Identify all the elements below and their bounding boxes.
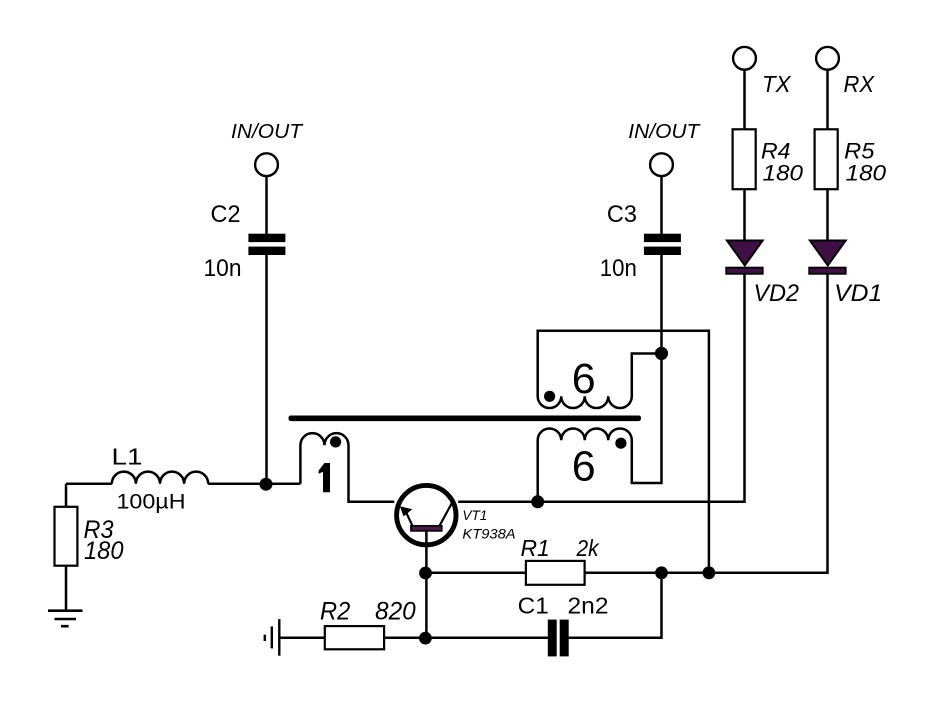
svg-text:R1: R1 <box>521 535 550 561</box>
svg-text:2k: 2k <box>576 535 600 561</box>
junction node C (bottom winding / TX line) <box>531 495 544 508</box>
wire ground2 to R2 <box>281 637 325 640</box>
polarity dot primary winding <box>330 436 341 447</box>
svg-text:VT1: VT1 <box>462 508 487 523</box>
ground symbol under R3 <box>48 611 83 627</box>
svg-text:C3: C3 <box>607 201 637 228</box>
svg-text:6: 6 <box>572 443 596 491</box>
transformer core <box>289 416 642 422</box>
junction emitter / R1 left <box>419 567 432 580</box>
wire input node down to R3 <box>65 484 68 507</box>
wire terminal1 to C2 <box>265 176 268 235</box>
svg-text:180: 180 <box>84 537 124 565</box>
svg-text:TX: TX <box>762 71 792 97</box>
diode VD1 <box>809 241 846 274</box>
svg-text:180: 180 <box>846 161 887 186</box>
terminal RX <box>816 47 839 70</box>
svg-text:180: 180 <box>763 161 804 186</box>
capacitor C1 <box>548 620 569 657</box>
svg-text:C1: C1 <box>518 593 549 619</box>
svg-text:6: 6 <box>572 355 596 403</box>
junction node A (C3 / windings) <box>655 347 668 360</box>
wire RX terminal to R5 <box>826 70 829 129</box>
wire input line left to L1 and across to primary <box>66 482 112 485</box>
polarity dot top winding <box>544 391 555 402</box>
svg-text:10n: 10n <box>204 255 242 282</box>
svg-text:10n: 10n <box>600 255 637 282</box>
resistor R5 <box>815 129 838 189</box>
transformer primary winding 1 <box>300 433 394 502</box>
svg-text:C2: C2 <box>211 201 241 228</box>
wire R2 to emitter node <box>384 637 425 640</box>
capacitor C2 <box>248 234 285 255</box>
wire VD1 down to R1 output line <box>585 273 828 573</box>
wire C1 right up to R1 line <box>569 573 662 638</box>
wire C3 to node A <box>660 254 663 354</box>
wire L1 to primary winding <box>208 482 300 485</box>
junction node B (L1 / C2 / primary) <box>260 478 273 491</box>
svg-text:IN/OUT: IN/OUT <box>628 121 701 143</box>
transformer secondary top winding 6 <box>538 331 709 573</box>
svg-text:VD2: VD2 <box>754 280 800 307</box>
wire transistor emitter down <box>425 531 428 638</box>
capacitor C3 <box>644 234 681 255</box>
wire terminal2 to C3 <box>660 176 663 235</box>
inductor L1 <box>112 472 208 484</box>
wire TX terminal to R4 <box>743 70 746 129</box>
wire R3 to ground <box>65 566 68 611</box>
terminal TX <box>733 47 756 70</box>
ground symbol left of R2 <box>265 619 280 656</box>
wire C2 to junction node B <box>265 254 268 484</box>
svg-text:KT938A: KT938A <box>462 527 515 542</box>
wire VD2 down and left to transistor right <box>458 273 744 502</box>
wire emitter node to C1 <box>426 637 549 640</box>
svg-text:VD1: VD1 <box>834 280 882 307</box>
wire R5 to VD1 <box>826 189 829 241</box>
diode VD2 <box>726 241 763 274</box>
junction rectangle edge / R1 line <box>703 566 716 579</box>
svg-text:RX: RX <box>844 71 876 97</box>
wire R4 to VD2 <box>743 189 746 241</box>
junction emitter / R2 / C1 <box>419 632 432 645</box>
transformer secondary bottom winding 6 <box>538 354 662 502</box>
svg-text:820: 820 <box>375 597 416 625</box>
resistor R1 <box>526 561 585 585</box>
svg-text:R2: R2 <box>320 597 350 625</box>
wire emitter node to R1 left <box>426 572 526 575</box>
transistor VT1 <box>397 485 456 544</box>
svg-text:2n2: 2n2 <box>568 593 609 619</box>
resistor R4 <box>733 129 756 189</box>
junction R1 right / C1 right <box>655 566 668 579</box>
terminal IN/OUT right <box>650 153 673 176</box>
svg-text:100µH: 100µH <box>117 490 186 514</box>
terminal IN/OUT left <box>255 153 278 176</box>
svg-text:L1: L1 <box>112 443 143 469</box>
polarity dot bottom winding <box>615 438 626 449</box>
svg-text:IN/OUT: IN/OUT <box>231 121 304 143</box>
resistor R3 <box>55 507 78 566</box>
label 1 primary winding <box>319 463 330 492</box>
resistor R2 <box>325 626 384 649</box>
